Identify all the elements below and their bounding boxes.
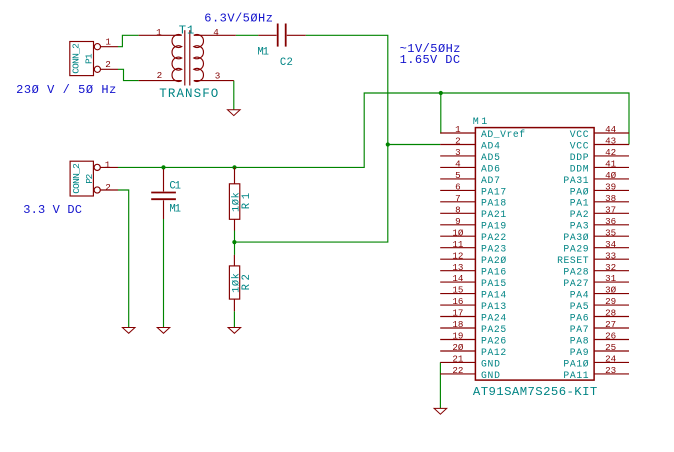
svg-text:7: 7 bbox=[455, 193, 461, 204]
svg-text:VCC: VCC bbox=[570, 140, 589, 151]
svg-text:23: 23 bbox=[605, 365, 616, 376]
svg-text:PA5: PA5 bbox=[570, 301, 589, 312]
svg-text:41: 41 bbox=[605, 159, 617, 170]
svg-text:PA1Ø: PA1Ø bbox=[563, 358, 588, 369]
svg-text:RESET: RESET bbox=[557, 255, 589, 266]
svg-text:C1: C1 bbox=[169, 180, 181, 192]
svg-text:PA2: PA2 bbox=[570, 209, 589, 220]
svg-text:DDM: DDM bbox=[570, 163, 589, 174]
svg-text:CONN_2: CONN_2 bbox=[71, 43, 82, 74]
svg-text:8: 8 bbox=[455, 204, 461, 215]
svg-text:PA3Ø: PA3Ø bbox=[563, 232, 588, 243]
svg-text:DDP: DDP bbox=[570, 152, 589, 163]
svg-text:22: 22 bbox=[452, 365, 463, 376]
svg-text:25: 25 bbox=[605, 342, 616, 353]
svg-text:38: 38 bbox=[605, 193, 616, 204]
svg-text:CONN_2: CONN_2 bbox=[71, 163, 82, 194]
svg-text:GND: GND bbox=[481, 370, 500, 381]
svg-text:P2: P2 bbox=[84, 173, 95, 183]
svg-text:1: 1 bbox=[105, 36, 111, 47]
svg-text:PA2Ø: PA2Ø bbox=[481, 255, 506, 266]
svg-text:PA24: PA24 bbox=[481, 312, 506, 323]
svg-text:6: 6 bbox=[455, 181, 461, 192]
svg-text:PA26: PA26 bbox=[481, 335, 506, 346]
svg-text:PA25: PA25 bbox=[481, 324, 506, 335]
svg-text:PA14: PA14 bbox=[481, 290, 506, 301]
svg-text:1: 1 bbox=[156, 27, 162, 38]
svg-text:AT91SAM7S256-KIT: AT91SAM7S256-KIT bbox=[473, 385, 597, 399]
svg-text:1Ø: 1Ø bbox=[452, 227, 464, 238]
svg-text:PA3: PA3 bbox=[570, 221, 589, 232]
svg-text:PA31: PA31 bbox=[563, 175, 588, 186]
svg-text:AD6: AD6 bbox=[481, 163, 500, 174]
svg-text:AD7: AD7 bbox=[481, 175, 500, 186]
svg-text:PA11: PA11 bbox=[563, 370, 588, 381]
svg-text:23Ø V / 5Ø Hz: 23Ø V / 5Ø Hz bbox=[16, 83, 116, 97]
svg-text:M1: M1 bbox=[169, 204, 181, 216]
svg-text:PA1: PA1 bbox=[570, 198, 589, 209]
svg-text:PA9: PA9 bbox=[570, 347, 589, 358]
svg-text:T1: T1 bbox=[179, 24, 195, 38]
svg-text:34: 34 bbox=[605, 239, 617, 250]
svg-text:PA12: PA12 bbox=[481, 347, 506, 358]
svg-text:PA18: PA18 bbox=[481, 198, 506, 209]
svg-text:13: 13 bbox=[452, 262, 463, 273]
svg-text:26: 26 bbox=[605, 331, 616, 342]
svg-text:3: 3 bbox=[215, 71, 221, 82]
svg-text:TRANSFO: TRANSFO bbox=[159, 87, 218, 101]
svg-text:PA22: PA22 bbox=[481, 232, 506, 243]
svg-text:PA17: PA17 bbox=[481, 186, 506, 197]
svg-text:2: 2 bbox=[105, 182, 111, 193]
svg-text:PA29: PA29 bbox=[563, 244, 588, 255]
svg-text:AD5: AD5 bbox=[481, 152, 500, 163]
svg-text:PA6: PA6 bbox=[570, 312, 589, 323]
svg-text:44: 44 bbox=[605, 124, 617, 135]
svg-text:6.3V/5ØHz: 6.3V/5ØHz bbox=[204, 12, 273, 26]
svg-text:4Ø: 4Ø bbox=[605, 170, 617, 181]
svg-text:PA7: PA7 bbox=[570, 324, 589, 335]
svg-text:2Ø: 2Ø bbox=[452, 342, 464, 353]
svg-text:PA4: PA4 bbox=[570, 290, 589, 301]
svg-text:3: 3 bbox=[455, 147, 461, 158]
svg-text:GND: GND bbox=[481, 358, 500, 369]
svg-text:2: 2 bbox=[105, 59, 111, 70]
svg-text:21: 21 bbox=[452, 354, 464, 365]
svg-text:PA23: PA23 bbox=[481, 244, 506, 255]
svg-text:18: 18 bbox=[452, 319, 463, 330]
svg-text:1: 1 bbox=[455, 124, 461, 135]
svg-text:4: 4 bbox=[455, 159, 461, 170]
svg-text:C2: C2 bbox=[280, 57, 293, 69]
svg-text:PA15: PA15 bbox=[481, 278, 506, 289]
svg-text:P1: P1 bbox=[84, 53, 95, 64]
svg-text:M1: M1 bbox=[257, 46, 269, 58]
svg-text:29: 29 bbox=[605, 296, 616, 307]
svg-text:2: 2 bbox=[157, 70, 163, 81]
svg-text:PA8: PA8 bbox=[570, 335, 589, 346]
svg-text:37: 37 bbox=[605, 204, 616, 215]
svg-text:36: 36 bbox=[605, 216, 616, 227]
svg-text:24: 24 bbox=[605, 354, 617, 365]
svg-text:9: 9 bbox=[455, 216, 461, 227]
svg-text:VCC: VCC bbox=[570, 129, 589, 140]
svg-text:28: 28 bbox=[605, 308, 616, 319]
svg-text:16: 16 bbox=[452, 296, 463, 307]
svg-text:27: 27 bbox=[605, 319, 616, 330]
svg-text:39: 39 bbox=[605, 181, 616, 192]
svg-text:14: 14 bbox=[452, 273, 464, 284]
svg-text:19: 19 bbox=[452, 331, 463, 342]
svg-text:AD4: AD4 bbox=[481, 140, 500, 151]
svg-text:PA16: PA16 bbox=[481, 267, 506, 278]
svg-text:31: 31 bbox=[605, 273, 617, 284]
svg-text:PA28: PA28 bbox=[563, 267, 588, 278]
svg-text:5: 5 bbox=[455, 170, 461, 181]
svg-text:AD_Vref: AD_Vref bbox=[481, 129, 525, 140]
svg-text:35: 35 bbox=[605, 227, 616, 238]
svg-text:43: 43 bbox=[605, 136, 616, 147]
svg-text:17: 17 bbox=[452, 308, 463, 319]
svg-text:4: 4 bbox=[213, 27, 219, 38]
svg-text:2: 2 bbox=[455, 136, 461, 147]
svg-text:PA13: PA13 bbox=[481, 301, 506, 312]
svg-text:32: 32 bbox=[605, 262, 616, 273]
svg-text:33: 33 bbox=[605, 250, 616, 261]
svg-text:12: 12 bbox=[452, 250, 463, 261]
svg-text:42: 42 bbox=[605, 147, 616, 158]
svg-text:1.65V DC: 1.65V DC bbox=[400, 53, 461, 67]
svg-text:15: 15 bbox=[452, 285, 463, 296]
svg-text:1: 1 bbox=[105, 159, 111, 170]
svg-text:11: 11 bbox=[452, 239, 464, 250]
svg-text:3.3 V DC: 3.3 V DC bbox=[23, 203, 82, 217]
svg-text:PA19: PA19 bbox=[481, 221, 506, 232]
svg-text:PAØ: PAØ bbox=[570, 186, 589, 197]
svg-text:3Ø: 3Ø bbox=[605, 285, 617, 296]
svg-text:PA27: PA27 bbox=[563, 278, 588, 289]
svg-text:PA21: PA21 bbox=[481, 209, 506, 220]
